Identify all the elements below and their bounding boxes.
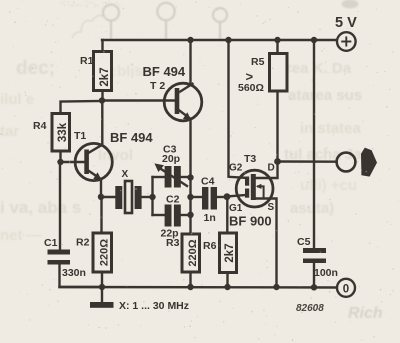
resistor R1 (2k7) [80,52,112,101]
wire: G2 line from rail to T3 [229,40,246,178]
wire: G1 lead into T3 [227,195,245,197]
svg-text:ulli) +cu: ulli) +cu [300,177,357,194]
junction dot: G2 line at rail [225,37,231,43]
svg-text:D: D [268,163,275,174]
svg-text:C2: C2 [166,194,180,206]
wire: +5V supply rail [102,39,337,41]
svg-text:rea K. Da: rea K. Da [286,60,352,77]
svg-text:tar: tar [0,123,19,140]
svg-text:220Ω: 220Ω [99,239,111,266]
svg-text:220Ω: 220Ω [187,239,199,266]
svg-text:C4: C4 [201,176,215,188]
wire: right branch (T2 emitter down to R3) [180,120,190,235]
svg-text:BF 494: BF 494 [110,130,153,145]
wire: output line [278,160,337,163]
svg-text:R2: R2 [76,237,90,249]
svg-text:BF 494: BF 494 [143,64,186,79]
junction dot: C5 at rail [311,37,317,43]
junction dot: drain / R5 / output [274,158,281,165]
svg-text:R5: R5 [251,56,265,68]
wire: T1 emitter down to crystal node [100,179,102,197]
svg-text:C5: C5 [297,236,311,248]
transistor T2 (BF494) [143,64,202,121]
wire: bias node to T2 base [102,99,175,101]
wire: T2 collector [189,40,191,85]
output terminal (open circle) [337,153,356,172]
svg-text:C1: C1 [44,237,58,249]
wire: T3 source to ground rail [256,199,277,288]
junction dot: C5 at ground rail [311,284,317,290]
trimmer capacitor C3 (20p) [154,144,187,188]
junction dot: R2 at ground rail [99,284,105,290]
wire: T1 collector [101,101,103,145]
svg-text:20p: 20p [162,153,180,165]
ground terminal 0V [337,279,355,297]
junction dot: T2 collector at rail [187,37,193,43]
resistor R2 (220 ohm) [76,197,112,287]
capacitor C2 (22p) [161,194,181,240]
junction dot: T1 emitter / crystal / R2 [98,194,104,200]
svg-text:5 V: 5 V [335,15,357,31]
transistor T3 (BF900) dual-gate MOSFET [229,153,275,229]
wire: C5 branch from rail [313,40,315,248]
svg-text:G2: G2 [229,163,243,174]
svg-text:i va, aba s: i va, aba s [0,198,81,217]
crystal X (1...30 MHz) [115,169,141,213]
svg-text:X: X [122,169,129,180]
wire: T3 drain to output node [256,162,278,179]
svg-text:330n: 330n [62,267,86,279]
output arrow [361,148,377,177]
svg-text:0: 0 [343,283,349,295]
svg-text:dec;: dec; [16,58,55,79]
wire: C1 branch down [59,162,61,250]
junction dot: R1 / T1 collector / T2 base node [99,97,105,103]
junction dot: C4 / G1 / R6 node [224,193,231,200]
junction dot: R5 at rail [274,37,280,43]
svg-text:R4: R4 [33,120,47,132]
svg-text:asuta): asuta) [290,200,334,217]
svg-text:82608: 82608 [296,303,324,314]
svg-text:1n: 1n [204,212,216,224]
junction dot: crystal / C3 / C2 branch [149,194,155,200]
svg-text:Rich: Rich [348,305,383,322]
svg-text:R3: R3 [166,237,180,249]
svg-text:T3: T3 [244,153,256,165]
main schematic ink [33,15,377,314]
wire: G1 node down to R6 [226,197,228,233]
junction dot: R6 at ground rail [224,284,230,290]
svg-text:ilul e: ilul e [0,91,34,108]
capacitor C4 (1n) [201,176,224,225]
svg-text:in statea: in statea [300,120,362,137]
junction dot: C3 right [187,174,193,180]
junction dot: C2 right [187,212,193,218]
ground symbol [90,287,114,308]
junction dot: T3 source at ground rail [273,284,279,290]
wire: R4 top to bias node [61,101,103,114]
junction dot: R4 / T1 base / C1 node [57,159,63,165]
svg-text:S: S [268,202,275,213]
wire: T1 base [61,161,85,163]
wire: ground rail [60,286,337,289]
svg-text:560Ω: 560Ω [238,82,264,94]
svg-text:BF 900: BF 900 [229,214,272,229]
svg-text:X: 1 ... 30 MHz: X: 1 ... 30 MHz [119,300,189,312]
power terminal 5V [335,15,357,51]
resistor R5 (560 ohm) [238,40,287,162]
capacitor C1 (330n) [44,237,102,287]
svg-text:2k7: 2k7 [99,67,111,86]
wire: crystal to C2/C3 branch [142,196,153,198]
capacitor C5 (100n) [297,236,338,287]
wire: node to C4 [191,196,203,198]
svg-text:net —: net — [0,227,42,244]
junction dot: main node to C4 [187,194,193,200]
svg-text:G1: G1 [229,203,243,214]
svg-text:R6: R6 [203,240,217,252]
svg-text:·: .,… ;··,. ··; ,·.: ·: .,… ;··,. ··; ,·. [60,0,121,8]
wire: R1 top lead from rail corner [101,40,103,52]
resistor R4 (33k) [33,114,70,163]
svg-text:2k7: 2k7 [224,243,236,262]
svg-text:T1: T1 [74,130,86,142]
svg-text:T 2: T 2 [150,80,165,92]
svg-text:Invol: Invol [98,147,133,164]
resistor R3 (220 ohm) [166,234,200,287]
svg-text:33k: 33k [57,122,69,142]
svg-text:100n: 100n [314,267,338,279]
transistor T1 (BF494) [74,130,153,181]
junction dot: R3 at ground rail [187,284,193,290]
svg-text:atarea sus: atarea sus [288,87,362,104]
wire: emitter node to crystal [101,196,116,198]
resistor R6 (2k7) [203,233,237,287]
svg-text:R1: R1 [80,55,94,67]
wire: left branch of C3/C2 pair [153,177,166,215]
